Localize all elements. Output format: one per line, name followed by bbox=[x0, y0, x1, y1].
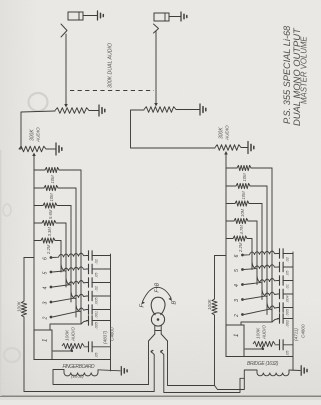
switch S1 position 2 contact bbox=[43, 316, 53, 321]
svg-text:1: 1 bbox=[43, 339, 49, 342]
capacitor C17 .05 (left coupling) bbox=[84, 342, 111, 352]
potentiometer VR5 100K audio (right) bbox=[253, 341, 275, 346]
wire R24 to switch contact bbox=[256, 221, 258, 285]
label 1 (S1 pos 1) bbox=[43, 339, 49, 342]
svg-text:AUDIO: AUDIO bbox=[262, 325, 267, 340]
wire R11 to switch contact bbox=[80, 170, 82, 324]
svg-text:3: 3 bbox=[43, 302, 49, 305]
wire R15 to switch contact bbox=[60, 241, 62, 273]
svg-text:.005: .005 bbox=[94, 297, 99, 305]
svg-text:100K: 100K bbox=[17, 300, 22, 312]
svg-text:300K DUAL AUDIO: 300K DUAL AUDIO bbox=[108, 43, 114, 88]
svg-text:3: 3 bbox=[234, 299, 240, 302]
wire position-1 line to C26 bbox=[241, 319, 280, 326]
wire VR1a left end to VR2 left end bbox=[19, 111, 55, 149]
svg-text:4: 4 bbox=[43, 287, 49, 290]
label 1 (S2 pos 1) bbox=[234, 334, 240, 337]
label .02 bbox=[94, 258, 99, 264]
resistor R24 4.7M (right ladder) bbox=[226, 218, 257, 223]
wire R12 to switch contact bbox=[75, 188, 77, 317]
potentiometer VR2 300K audio (left master volume) bbox=[19, 146, 46, 152]
jack J2 tip contact bbox=[154, 24, 159, 33]
wiper of VR4 to switch bus bbox=[224, 151, 228, 158]
resistor R14 3.3M (left ladder) bbox=[34, 220, 66, 225]
svg-text:10M: 10M bbox=[50, 175, 55, 184]
switch S1 position 1 frame box bbox=[34, 330, 52, 360]
label B (bridge position) bbox=[172, 301, 178, 305]
switch S2 rotor bus (right) bbox=[225, 158, 227, 325]
label 3.3M bbox=[47, 227, 52, 237]
svg-text:3.3M: 3.3M bbox=[47, 227, 52, 237]
label 5.6M bbox=[48, 209, 53, 219]
wire S2 pos 6 to capacitor bbox=[244, 251, 278, 255]
svg-text:.005: .005 bbox=[285, 308, 290, 316]
wire S1 pos 6 to capacitor bbox=[53, 253, 87, 257]
svg-text:.005: .005 bbox=[94, 321, 99, 329]
svg-text:5: 5 bbox=[234, 269, 240, 272]
svg-text:10M: 10M bbox=[241, 191, 246, 200]
label .004 bbox=[285, 295, 290, 303]
ground at VR1b right end bbox=[176, 104, 206, 115]
svg-text:C4800: C4800 bbox=[110, 327, 115, 341]
wire S1 pos 3 to capacitor bbox=[53, 292, 87, 302]
svg-text:10M: 10M bbox=[240, 208, 245, 217]
svg-text:(4837): (4837) bbox=[103, 330, 108, 344]
ground at VR4 right end bbox=[241, 142, 254, 154]
output jack J1 (left channel) bbox=[68, 12, 83, 20]
rail left 100K to selector bbox=[24, 391, 154, 393]
svg-text:F+B: F+B bbox=[155, 282, 161, 292]
svg-text:5: 5 bbox=[43, 272, 49, 275]
resistor R12 10M (left ladder) bbox=[34, 185, 76, 190]
label .05 bbox=[285, 270, 290, 276]
label F (fingerboard position) bbox=[140, 304, 146, 308]
selector stem bbox=[155, 326, 161, 335]
wire box bottom rail to cap bus (right) bbox=[244, 356, 293, 358]
svg-text:AUDIO: AUDIO bbox=[225, 125, 230, 141]
svg-text:FINGERBOARD: FINGERBOARD bbox=[63, 364, 96, 370]
wire R21 to switch contact bbox=[271, 168, 273, 322]
capacitor C27 .05 (right coupling) bbox=[275, 340, 293, 350]
svg-text:.02: .02 bbox=[285, 256, 290, 262]
ground at jack J2 sleeve bbox=[169, 12, 187, 21]
label (4837) C4800 bbox=[103, 327, 115, 344]
wire S2 pos 4 to capacitor bbox=[244, 276, 278, 285]
label 100K (right) bbox=[207, 298, 212, 310]
capacitor C11 .02 (left tone bank) bbox=[87, 251, 111, 260]
wire R23 to switch contact bbox=[261, 204, 263, 300]
svg-text:2.2M: 2.2M bbox=[46, 244, 51, 255]
label 100K (left) bbox=[17, 300, 22, 312]
capacitor C12 .05 (left tone bank) bbox=[87, 264, 111, 274]
selector leg outer-left to fingerboard rail bbox=[148, 341, 150, 385]
svg-text:6: 6 bbox=[234, 255, 240, 258]
capacitor bus (right) bbox=[292, 252, 294, 370]
selector throw arc bbox=[141, 287, 172, 304]
switch S1 position 6 contact bbox=[43, 256, 53, 260]
switch S2 position 5 contact bbox=[234, 268, 244, 272]
svg-text:10M: 10M bbox=[49, 193, 54, 202]
capacitor C26 .002 (right tone bank) bbox=[278, 314, 294, 323]
label 4.7M bbox=[239, 225, 244, 235]
resistor R13 5.6M (left ladder) bbox=[34, 203, 71, 208]
selector leg inner-left to 100K rail bbox=[153, 355, 155, 392]
label (4711) C4800 bbox=[294, 324, 306, 341]
svg-text:.001: .001 bbox=[94, 311, 99, 319]
label .02 bbox=[94, 285, 99, 291]
ground at VR2 right end bbox=[46, 143, 62, 155]
switch S1 position 5 contact bbox=[43, 271, 53, 275]
pickup selector switch SW lever knob bbox=[151, 297, 165, 315]
label 10M bbox=[50, 175, 55, 184]
label 10M bbox=[240, 208, 245, 217]
wire S2 pos 3 to capacitor bbox=[244, 290, 278, 300]
switch S2 position 4 contact bbox=[234, 283, 244, 287]
wiper of VR2 to switch bus bbox=[32, 153, 36, 161]
label .05 bbox=[94, 352, 99, 358]
capacitor C23 .01 (right tone bank) bbox=[278, 276, 294, 285]
svg-text:.02: .02 bbox=[94, 258, 99, 264]
label 2.2M bbox=[46, 244, 51, 255]
label 300K AUDIO (left) bbox=[30, 127, 41, 143]
svg-text:F: F bbox=[140, 304, 146, 308]
resistor R23 10M (right ladder) bbox=[226, 201, 262, 206]
switch S1 position 3 contact bbox=[43, 301, 53, 305]
svg-text:5.6M: 5.6M bbox=[48, 209, 53, 219]
switch S1 rotor bus (left) bbox=[33, 160, 35, 330]
label F+B (both position) bbox=[155, 282, 161, 292]
svg-text:.05: .05 bbox=[94, 272, 99, 278]
resistor R16 100K (left mixing) bbox=[21, 258, 26, 392]
switch S1 position 4 contact bbox=[43, 286, 53, 290]
wire L1 left end to selector rail bbox=[53, 370, 149, 385]
label 100K AUDIO (right) bbox=[256, 325, 267, 340]
capacitor C16 .005 (left tone bank) bbox=[87, 316, 111, 325]
label 100K AUDIO (left) bbox=[65, 327, 76, 342]
svg-text:.05: .05 bbox=[285, 350, 290, 356]
wire VR3 wiper bbox=[53, 348, 73, 352]
selector pivot bbox=[151, 313, 164, 326]
svg-text:6: 6 bbox=[43, 257, 49, 260]
capacitor C22 .05 (right tone bank) bbox=[278, 262, 294, 272]
svg-text:4.7M: 4.7M bbox=[239, 225, 244, 235]
wire S1 pos 2 to capacitor bbox=[53, 305, 87, 317]
selector pole contact left bbox=[151, 350, 155, 355]
switch S2 position 1 frame box bbox=[226, 325, 244, 357]
label .005 bbox=[94, 321, 99, 329]
label .005 bbox=[285, 308, 290, 316]
label .005 bbox=[94, 297, 99, 305]
label 10M bbox=[242, 173, 247, 182]
resistor R11 10M (left ladder) bbox=[34, 167, 81, 172]
wire S1 pos 4 to capacitor bbox=[53, 278, 87, 287]
svg-text:AUDIO: AUDIO bbox=[71, 327, 76, 342]
selector leg outer-right bbox=[168, 341, 258, 390]
label .05 bbox=[94, 272, 99, 278]
ground at L2 right end bbox=[289, 366, 307, 376]
dashed gang line of dual pot bbox=[70, 90, 154, 92]
svg-text:.01: .01 bbox=[285, 284, 290, 289]
svg-text:(4711): (4711) bbox=[294, 328, 299, 341]
label 10M bbox=[49, 193, 54, 202]
wire jack J1 tip to volume pot VR1a wiper bbox=[64, 34, 68, 108]
resistor R21 10M (right ladder) bbox=[226, 165, 272, 170]
wire box bottom rail to cap bus bbox=[52, 359, 111, 361]
title line 3 bbox=[300, 36, 309, 104]
svg-text:AUDIO: AUDIO bbox=[36, 127, 41, 143]
wire jack J2 tip to VR1b wiper bbox=[154, 31, 158, 107]
svg-text:BRIDGE (1632): BRIDGE (1632) bbox=[247, 361, 279, 367]
svg-text:2.2M: 2.2M bbox=[238, 242, 243, 253]
capacitor C13 .02 (left tone bank) bbox=[87, 278, 111, 287]
label .05 (right) bbox=[285, 350, 290, 356]
label .002 bbox=[285, 319, 290, 327]
svg-text:(1632): (1632) bbox=[71, 374, 84, 379]
pickup coil L1 FINGERBOARD bbox=[57, 364, 98, 379]
selector pole contact right bbox=[160, 350, 164, 355]
wire S2 pos 5 to capacitor bbox=[244, 262, 278, 270]
capacitor C15 .001 (left tone bank) bbox=[87, 305, 111, 314]
wire S2 pos 2 to capacitor bbox=[244, 303, 278, 315]
svg-text:.05: .05 bbox=[94, 352, 99, 358]
svg-text:.004: .004 bbox=[285, 295, 290, 303]
wire R25 to switch contact bbox=[251, 239, 253, 270]
label .01 bbox=[285, 284, 290, 289]
pickup coil L2 BRIDGE bbox=[247, 361, 289, 376]
capacitor C14 .005 (left tone bank) bbox=[87, 291, 111, 301]
switch S2 position 2 contact bbox=[234, 313, 244, 318]
jack J1 tip contact bbox=[61, 24, 67, 37]
resistor R25 2.2M (right ladder) bbox=[226, 236, 252, 241]
label .02 bbox=[285, 256, 290, 262]
capacitor C21 .02 (right tone bank) bbox=[278, 249, 294, 258]
svg-text:10M: 10M bbox=[242, 173, 247, 182]
svg-text:100K: 100K bbox=[207, 298, 212, 310]
wire VR5 wiper bbox=[245, 346, 264, 350]
svg-text:1: 1 bbox=[234, 334, 240, 337]
wire ladder bus to R16 bbox=[24, 257, 34, 259]
potentiometer VR1b 300K dual audio (gang 2) bbox=[144, 107, 176, 113]
label .001 bbox=[94, 311, 99, 319]
svg-text:2: 2 bbox=[234, 314, 240, 318]
selector leg inner-right bbox=[164, 355, 245, 393]
potentiometer VR4 300K audio (right master volume) bbox=[215, 145, 241, 151]
wire position-1 line to C16 bbox=[50, 321, 89, 331]
resistor R22 10M (right ladder) bbox=[226, 183, 267, 188]
svg-text:.002: .002 bbox=[285, 319, 290, 327]
capacitor bus (left) bbox=[110, 254, 112, 371]
label 2.2M bbox=[238, 242, 243, 253]
wire S1 pos 5 to capacitor bbox=[53, 264, 87, 272]
switch S2 position 3 contact bbox=[234, 298, 244, 302]
wire R22 to switch contact bbox=[266, 186, 268, 315]
potentiometer VR3 100K audio (left) bbox=[62, 343, 84, 348]
potentiometer VR1a 300K dual audio (gang 1) bbox=[55, 108, 89, 114]
output jack J2 (right channel) bbox=[154, 13, 169, 21]
capacitor C25 .005 (right tone bank) bbox=[278, 303, 294, 312]
svg-text:4: 4 bbox=[234, 284, 240, 287]
ground at VR1a right end bbox=[89, 105, 105, 116]
svg-text:MASTER VOLUME: MASTER VOLUME bbox=[300, 36, 309, 104]
ground at jack J1 sleeve bbox=[83, 11, 103, 20]
ground at L1 right end bbox=[98, 367, 127, 375]
svg-text:C4800: C4800 bbox=[301, 324, 306, 338]
label 300K AUDIO (right) bbox=[219, 125, 230, 141]
title line 1 bbox=[282, 25, 292, 124]
switch S2 position 6 contact bbox=[234, 254, 244, 258]
capacitor C24 .004 (right tone bank) bbox=[278, 289, 294, 299]
svg-text:.02: .02 bbox=[94, 285, 99, 291]
svg-text:.05: .05 bbox=[285, 270, 290, 276]
wire VR1b left end to VR4 left end bbox=[131, 110, 216, 148]
resistor R15 2.2M (left ladder) bbox=[34, 238, 61, 243]
wire R14 to switch contact bbox=[65, 223, 67, 287]
selector base flare bbox=[149, 334, 168, 341]
svg-text:B: B bbox=[172, 301, 178, 305]
wire R13 to switch contact bbox=[70, 206, 72, 303]
title line 2 bbox=[291, 27, 302, 126]
resistor R26 100K (right mixing) bbox=[212, 256, 217, 386]
svg-text:2: 2 bbox=[43, 317, 49, 321]
label 300K DUAL AUDIO bbox=[108, 43, 114, 88]
label 10M bbox=[241, 191, 246, 200]
wire ladder bus to R26 bbox=[215, 255, 227, 257]
